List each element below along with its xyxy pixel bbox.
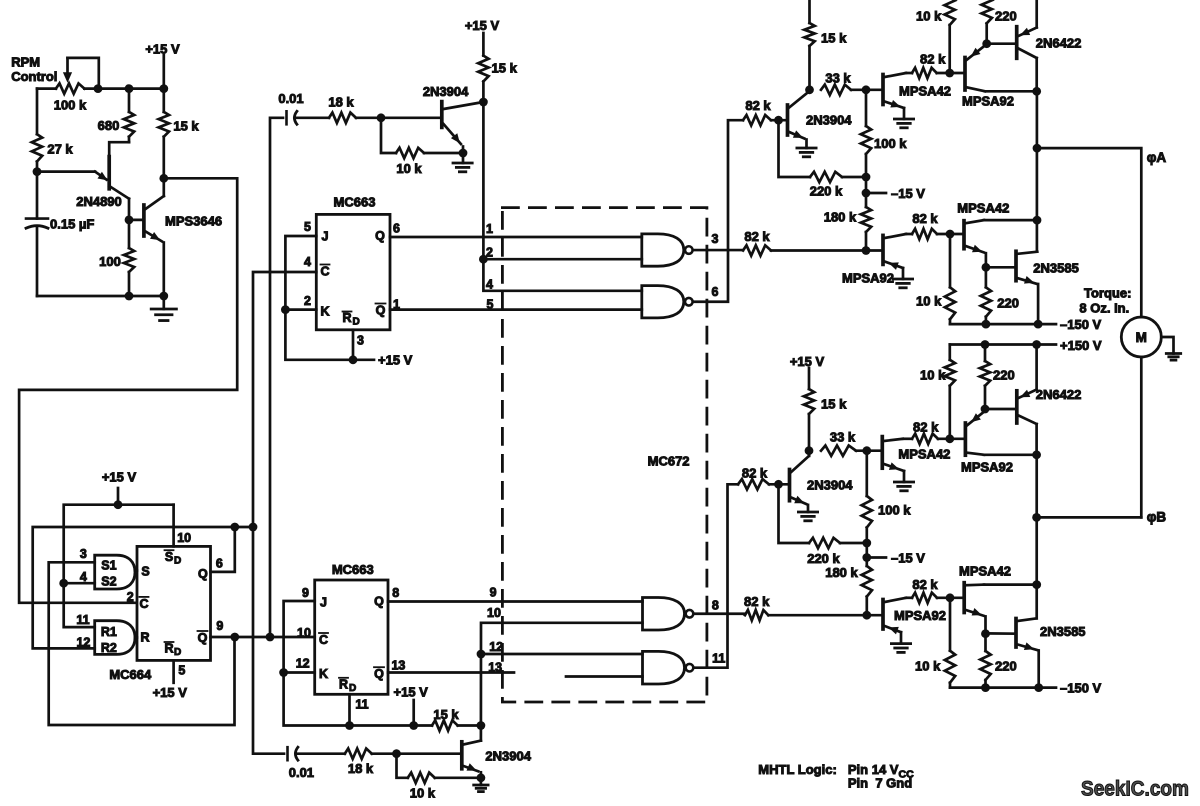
svg-text:220: 220	[997, 296, 1019, 311]
transistor 2N3904 (phase A driver)	[788, 91, 810, 148]
node emitter/10k junction (bottom)	[477, 773, 486, 782]
pin 11 label (below box)	[355, 698, 368, 712]
wire 82k row to 2N3904 base (A)	[771, 119, 788, 122]
label S1	[101, 559, 116, 573]
label Q pin (top FF)	[375, 229, 385, 243]
resistor 15 k (VCO)	[159, 89, 169, 179]
node -15V tap (A)	[862, 189, 871, 198]
svg-text:82 k: 82 k	[742, 466, 768, 481]
pin 5 label (J)	[304, 220, 311, 234]
node +15V rail junction	[114, 500, 123, 509]
node MPS3646 collector	[159, 174, 168, 183]
node 2N6422 base / 220 (A)	[982, 39, 991, 48]
pin 8 label	[392, 586, 399, 600]
wire base to 2N3585 (A)	[986, 266, 1016, 269]
label 33 k (A)	[825, 71, 851, 86]
node MPSA42 collector bus (A)	[1033, 216, 1042, 225]
resistor 680	[124, 89, 134, 143]
node pot output junction	[94, 84, 103, 93]
wire K2 input	[284, 671, 315, 674]
label 100 k	[54, 98, 87, 113]
node MPSA42 base / 10k (A lower)	[946, 230, 955, 239]
transistor MPSA42 (B upper)	[882, 437, 904, 482]
pin 5 label (MC664)	[178, 664, 185, 678]
node 220 on rail (A)	[982, 320, 991, 329]
pin 13 label	[391, 658, 405, 672]
node 180k bottom on net 3 (A)	[862, 246, 871, 255]
label 82 k (net 3)	[744, 229, 770, 244]
wire 82k row to 2N3904 base (B)	[769, 483, 790, 486]
svg-text:180 k: 180 k	[825, 565, 858, 580]
svg-text:MPSA42: MPSA42	[899, 84, 951, 99]
wire top coupling line from Q-bar net up to 0.01 cap	[270, 118, 283, 637]
transistor 2N3904 (phase B driver)	[790, 451, 810, 512]
svg-text:2N6422: 2N6422	[1036, 36, 1082, 51]
svg-text:R: R	[140, 631, 149, 645]
wire pin 11 reset to +15V rail	[348, 694, 351, 725]
svg-text:3: 3	[80, 547, 87, 561]
svg-text:220: 220	[995, 659, 1017, 674]
node Q / C1-bar line	[249, 523, 258, 532]
svg-text:11: 11	[355, 698, 368, 712]
svg-text:2N3904: 2N3904	[806, 113, 852, 128]
label J pin (bottom FF)	[320, 596, 327, 610]
transistor MPS3646	[129, 178, 164, 296]
wire pin 10 SD-bar to rail	[172, 505, 175, 547]
pin 9 label (J2)	[302, 586, 309, 600]
svg-text:10 k: 10 k	[920, 368, 946, 383]
pin 10 label (C2)	[297, 626, 311, 640]
wire clock from MPS3646 collector to MC664 clock input	[19, 178, 237, 603]
ground MPSA42 (B upper)	[894, 482, 913, 491]
label -150 V (A)	[1060, 317, 1102, 332]
svg-text:Q: Q	[376, 304, 386, 318]
svg-text:MPSA42: MPSA42	[957, 201, 1009, 216]
wire 10k branch (top)	[381, 118, 396, 153]
svg-text:+15 V: +15 V	[465, 18, 500, 33]
svg-text:MPSA42: MPSA42	[959, 564, 1011, 579]
svg-text:10: 10	[297, 626, 311, 640]
wire K1 input	[285, 308, 316, 311]
wire S2 input from +15V	[64, 582, 95, 585]
ground bottom one-shot	[474, 785, 488, 792]
wire -150V rail (B)	[950, 686, 1056, 689]
label K pin	[320, 305, 329, 319]
pin 2 label (K)	[304, 294, 311, 308]
svg-text:–150 V: –150 V	[1060, 317, 1102, 332]
resistor 15 k (phase B driver)	[804, 368, 814, 451]
svg-text:–150 V: –150 V	[1060, 681, 1102, 696]
label 2N3904 (phase B driver)	[807, 478, 853, 493]
wire 10k to emitter node (bottom)	[435, 776, 481, 779]
resistor 220 (A upper)	[982, 0, 992, 44]
resistor 10 k (B upper)	[945, 345, 955, 439]
svg-text:2N3585: 2N3585	[1040, 624, 1086, 639]
label 33 k (B)	[830, 430, 856, 445]
label net 10	[487, 606, 501, 620]
label phase B	[1147, 510, 1167, 525]
label net 4	[486, 278, 493, 292]
wire net 12 to NAND4	[481, 653, 643, 656]
resistor 10 k (bottom)	[408, 773, 435, 783]
label MPSA92 (A lower)	[842, 271, 894, 286]
node phase B output	[1032, 513, 1041, 522]
label SD-bar pin	[165, 550, 182, 567]
wire 2N4890 collector to MPS3646 base	[128, 199, 131, 220]
label 0.01 (bottom)	[289, 765, 314, 780]
svg-text:Q: Q	[198, 631, 208, 645]
svg-text:R2: R2	[101, 641, 117, 655]
label 220 k (A)	[810, 184, 843, 199]
svg-text:+15 V: +15 V	[145, 42, 180, 57]
node 100k/220k junction (A)	[862, 173, 871, 182]
svg-text:Control: Control	[11, 69, 57, 84]
IC MC672 quad NAND dashed outline	[502, 208, 707, 702]
label 10 k (B lower)	[915, 659, 941, 674]
svg-text:27 k: 27 k	[47, 142, 73, 157]
transistor MPSA42 (A lower)	[964, 220, 986, 267]
resistor 10 k (A lower)	[945, 234, 955, 324]
node 33k left (B)	[805, 446, 814, 455]
pin 4 label (S2)	[80, 570, 87, 584]
wire +15V supply drop to top rail	[162, 55, 165, 89]
ground motor	[1166, 354, 1180, 361]
svg-text:220: 220	[993, 368, 1015, 383]
label +15 V (phase B driver)	[790, 354, 825, 369]
transistor 2N3585 (A)	[1016, 251, 1038, 324]
resistor 220 (B lower)	[980, 633, 990, 687]
svg-text:8: 8	[392, 586, 399, 600]
IC MC663 flip-flop (bottom) box	[315, 580, 388, 694]
svg-text:S: S	[141, 565, 149, 579]
label Q pin (bottom FF)	[374, 594, 384, 608]
wire 2 to NAND1 input	[483, 258, 641, 261]
label RD-bar pin (MC664)	[164, 642, 181, 659]
svg-text:5: 5	[304, 220, 311, 234]
svg-text:–15 V: –15 V	[891, 551, 925, 566]
label +15 V (below MC663 top)	[378, 353, 413, 368]
node 220 on +150 rail (B)	[981, 340, 990, 349]
label Q-bar pin (MC664)	[198, 631, 208, 645]
svg-text:φB: φB	[1147, 510, 1167, 525]
label MC672	[648, 454, 690, 469]
label RD-bar pin (top FF)	[342, 311, 359, 328]
wire Q2 output to NAND3 (net 9)	[388, 600, 643, 603]
wire -15V tick (B)	[867, 556, 886, 559]
wire top rail 100k pot to 15k	[37, 87, 164, 90]
svg-text:2: 2	[127, 590, 134, 604]
ground MPSA42 (A upper)	[894, 119, 913, 128]
transistor 2N3904 (top one-shot)	[442, 102, 484, 163]
svg-text:11: 11	[76, 613, 89, 627]
label 2N3904 (phase A driver)	[806, 113, 852, 128]
svg-text:100 k: 100 k	[874, 136, 907, 151]
wire net 13 segment B to NAND4	[566, 675, 643, 678]
label 180 k (B)	[825, 565, 858, 580]
svg-text:10 k: 10 k	[916, 9, 942, 24]
resistor 15 k (phase A driver)	[804, 0, 814, 90]
wire 15k to collector node (top)	[482, 82, 485, 103]
svg-text:0.15 µF: 0.15 µF	[50, 216, 94, 231]
svg-text:D: D	[174, 647, 181, 658]
svg-text:MC663: MC663	[334, 195, 376, 210]
node 2N3904 base / 220k (A)	[774, 116, 783, 125]
svg-text:MHTL Logic:: MHTL Logic:	[758, 762, 836, 777]
wire C1-bar clock line to bottom cap	[253, 272, 316, 754]
label Torque spec	[1079, 286, 1131, 316]
svg-text:13: 13	[391, 658, 405, 672]
wire collector node up to nets 10 and 12	[481, 623, 643, 741]
label -150 V (B)	[1060, 681, 1102, 696]
transistor 2N4890	[37, 157, 129, 199]
label 82 k (B lower collector)	[912, 577, 938, 592]
svg-text:R: R	[164, 642, 173, 656]
node 2N6422 emitter on +150 rail (B)	[1032, 340, 1041, 349]
motor M	[1121, 317, 1161, 357]
ground top one-shot	[453, 163, 472, 172]
svg-text:33 k: 33 k	[830, 430, 856, 445]
pin 12 label (K2)	[296, 657, 310, 671]
label 10 k (bottom)	[410, 785, 436, 800]
label 680	[98, 118, 120, 133]
svg-text:S: S	[165, 550, 173, 564]
pin 3 label	[357, 334, 364, 348]
resistor 18 k (top)	[329, 113, 356, 123]
label K pin (bottom FF)	[319, 667, 328, 681]
label S2	[101, 575, 116, 589]
wire left branch down to 27k	[36, 89, 39, 135]
svg-text:S2: S2	[101, 575, 116, 589]
resistor 82 k (net 3, A)	[743, 245, 771, 255]
wire S1 input from feedback loop	[49, 562, 235, 725]
node 100k/220k junction (B)	[862, 539, 871, 548]
capacitor 0.01 (bottom)	[288, 747, 298, 760]
wire Q output up to cross wire	[211, 527, 235, 572]
svg-text:2N3904: 2N3904	[485, 748, 531, 763]
label 15 k (phase B driver)	[821, 397, 847, 412]
label MC663 (top)	[334, 195, 376, 210]
svg-text:MC663: MC663	[332, 562, 374, 577]
node pin3 +15V junction	[349, 355, 358, 364]
svg-text:12: 12	[296, 657, 310, 671]
label R2	[101, 641, 117, 655]
svg-text:4: 4	[486, 278, 493, 292]
svg-text:MC672: MC672	[648, 454, 690, 469]
transistor MPSA92 (A upper)	[965, 44, 987, 91]
label 82 k (B upper)	[913, 419, 939, 434]
ground MPSA92 (B lower)	[891, 644, 910, 653]
label 2N3904 (bottom one-shot)	[485, 748, 531, 763]
gate NAND4 (pins 12,13 -> 11)	[643, 651, 694, 684]
label net 6	[712, 285, 719, 299]
label net 2	[486, 246, 493, 260]
wire 10k to emitter node (top)	[424, 152, 463, 155]
node 27k / 0.15uF / 2N4890 emitter junction	[33, 167, 42, 176]
svg-text:3: 3	[712, 232, 719, 246]
svg-text:180 k: 180 k	[824, 210, 857, 225]
label S input	[141, 565, 149, 579]
wire Q2-bar output (net 13) segment A	[388, 671, 514, 674]
svg-text:10: 10	[177, 531, 191, 545]
node 18k/10k junction (top)	[377, 113, 386, 122]
node phase A output	[1033, 144, 1042, 153]
svg-text:9: 9	[302, 586, 309, 600]
wire +15V drop to 15k (top)	[482, 33, 485, 56]
wire phase B output to motor line	[1037, 516, 1142, 519]
resistor 180 k (B)	[862, 558, 872, 616]
svg-text:–15 V: –15 V	[891, 186, 925, 201]
wire NAND4 output net 11 up to 82k row	[695, 484, 739, 667]
pin 4 label (C)	[304, 255, 311, 269]
svg-text:+15 V: +15 V	[153, 685, 188, 700]
label +15 V (top one-shot)	[465, 18, 500, 33]
IC MC664 box	[137, 546, 211, 660]
svg-text:2: 2	[486, 246, 493, 260]
svg-text:2N3904: 2N3904	[807, 478, 853, 493]
node 15k top junction	[159, 84, 168, 93]
wire 33k to MPSA42 base (A)	[851, 88, 883, 91]
pin 6 label (MC664)	[216, 557, 223, 571]
wire base to 2N6422 (A)	[987, 42, 1017, 45]
svg-text:33 k: 33 k	[825, 71, 851, 86]
svg-text:15 k: 15 k	[433, 707, 459, 722]
resistor 15 k (top one-shot)	[478, 56, 488, 82]
resistor 220 k (A)	[779, 120, 867, 182]
wire base to 2N6422 (B)	[985, 408, 1017, 411]
label 82 k (net 8)	[744, 594, 770, 609]
label 220 (B upper)	[993, 368, 1015, 383]
svg-text:Pin 7 Gnd: Pin 7 Gnd	[848, 776, 912, 791]
svg-text:J: J	[322, 230, 329, 244]
node 180k bottom on net 8 (B)	[862, 611, 871, 620]
svg-text:C: C	[139, 597, 148, 611]
wire phase A collector bus	[1036, 91, 1039, 251]
wire net 8 to MPSA92 base (B)	[768, 614, 883, 617]
label net 11	[712, 651, 725, 665]
label net 5	[487, 298, 494, 312]
svg-text:R: R	[339, 677, 348, 691]
node 2N6422 base / 220 (B)	[981, 405, 990, 414]
label R1	[101, 625, 117, 639]
node Q-bar / top cap line	[266, 633, 275, 642]
svg-text:2N4890: 2N4890	[76, 194, 122, 209]
node 2N3585 emitter on rail (B)	[1034, 683, 1043, 692]
svg-text:6: 6	[393, 222, 400, 236]
label net 12	[489, 640, 503, 654]
ground 2N3904 (A)	[797, 148, 816, 157]
gate NAND2 (pins 4,5 -> 6)	[642, 286, 693, 318]
label RD-bar pin (bottom FF)	[339, 677, 356, 694]
svg-text:+15 V: +15 V	[102, 470, 137, 485]
transistor 2N6422 (A)	[1017, 0, 1037, 91]
wire +15V tick (bottom)	[412, 700, 415, 726]
node phase A collector bus top	[1032, 87, 1041, 96]
capacitor 0.01 (top)	[287, 111, 297, 124]
label 220 k (B)	[807, 551, 840, 566]
wire pin 5 to +15V	[172, 660, 175, 682]
node 2N3904 collector / 15k (top)	[479, 98, 488, 107]
ground 2N3904 (B)	[798, 512, 817, 521]
wire +15V rail over MC664	[64, 505, 174, 627]
svg-text:2N3585: 2N3585	[1033, 261, 1079, 276]
label Q-bar pin (top FF)	[376, 304, 386, 318]
label net 8	[712, 598, 719, 612]
transistor MPSA42 (A upper)	[883, 73, 906, 119]
svg-text:12: 12	[489, 640, 503, 654]
label 10 k (B upper)	[920, 368, 946, 383]
svg-text:Q: Q	[374, 667, 384, 681]
svg-text:M: M	[1136, 330, 1147, 345]
transistor 2N3585 (B)	[1016, 618, 1039, 687]
svg-text:680: 680	[98, 118, 120, 133]
label J pin	[322, 230, 329, 244]
wire MPSA42 collector to bus (B)	[984, 583, 1037, 586]
svg-text:2: 2	[304, 294, 311, 308]
svg-text:+15 V: +15 V	[378, 353, 413, 368]
wire 18k to 2N3904 base (bottom)	[372, 752, 462, 755]
wire NAND3 output net 8 to 82k	[695, 612, 746, 615]
node 33k left (A)	[805, 85, 814, 94]
resistor 82 k (B lower collector)	[906, 593, 964, 603]
svg-text:Torque:: Torque:	[1084, 286, 1131, 301]
node 2N3585 base / 220 (B)	[981, 629, 990, 638]
svg-text:D: D	[349, 683, 356, 694]
label 2N4890	[76, 194, 122, 209]
svg-text:82 k: 82 k	[745, 98, 771, 113]
node emitter/10k junction (top)	[459, 149, 468, 158]
svg-text:18 k: 18 k	[348, 761, 374, 776]
transistor MPSA92 (A lower)	[883, 234, 906, 279]
label 2N3904 (top one-shot)	[423, 84, 469, 99]
node pin11 junction	[345, 721, 354, 730]
node MPSA92 base / 10k (A upper)	[945, 69, 954, 78]
svg-text:15 k: 15 k	[821, 397, 847, 412]
svg-text:SeekIC.com: SeekIC.com	[1081, 778, 1189, 801]
svg-text:D: D	[174, 556, 181, 567]
label +15 V (below MC664)	[153, 685, 188, 700]
label -15 V (A)	[891, 186, 925, 201]
label Q-bar pin (bottom FF)	[374, 667, 384, 681]
node 680 top junction	[125, 84, 134, 93]
wire 10k branch (bottom)	[397, 754, 408, 778]
wire to -15V node (A)	[865, 177, 868, 193]
wire motor to ground	[1161, 337, 1173, 354]
wire MPSA92 collector row (A)	[985, 90, 1037, 93]
node VCO ground junction	[159, 292, 168, 301]
wire Q1-bar output to NAND2 (net 5)	[390, 308, 642, 311]
label 82 k (net 11)	[742, 466, 768, 481]
svg-text:15 k: 15 k	[821, 31, 847, 46]
label 2N6422 (A)	[1036, 36, 1082, 51]
svg-text:0.01: 0.01	[278, 91, 303, 106]
svg-text:C: C	[320, 265, 329, 279]
node S2 +15V junction	[59, 579, 68, 588]
label MPSA42 (A upper)	[899, 84, 951, 99]
resistor 27 k	[32, 134, 42, 161]
label 2N3585 (A)	[1033, 261, 1079, 276]
node 100k top (B)	[862, 446, 871, 455]
label MC663 (bottom)	[332, 562, 374, 577]
svg-text:4: 4	[304, 255, 311, 269]
label 10 k (top)	[396, 161, 422, 176]
svg-text:100 k: 100 k	[54, 98, 87, 113]
svg-text:R: R	[342, 311, 351, 325]
svg-text:82 k: 82 k	[744, 594, 770, 609]
resistor 220 (B upper)	[980, 345, 990, 410]
svg-text:RPM: RPM	[11, 55, 40, 70]
svg-text:13: 13	[488, 660, 502, 674]
label phase A	[1147, 150, 1167, 165]
